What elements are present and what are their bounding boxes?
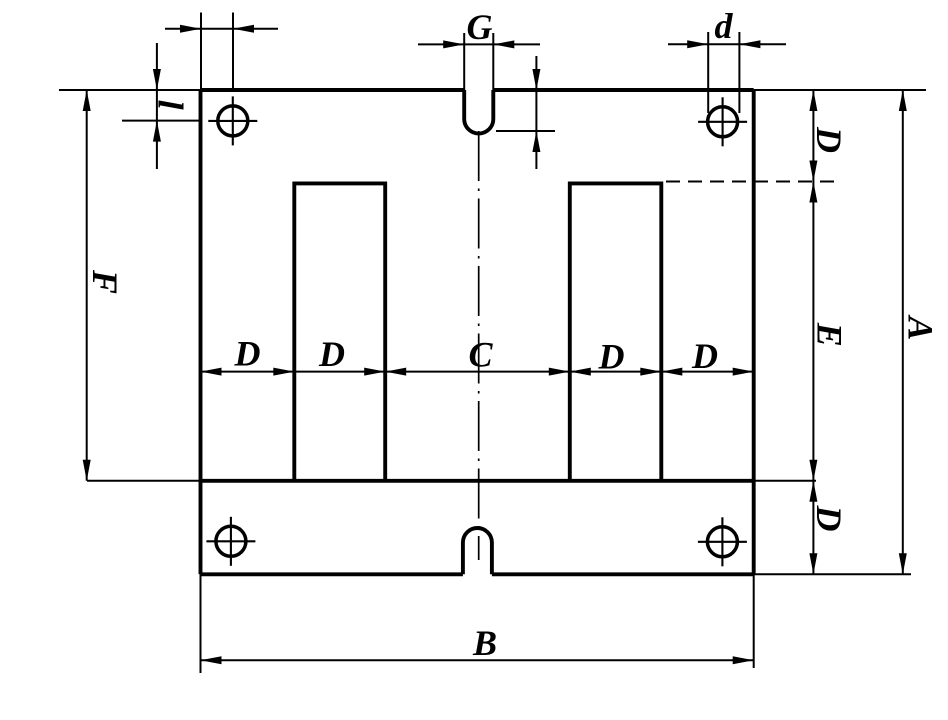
dimension G (top notch width) xyxy=(418,7,540,90)
dimension D (bottom right, I-strip depth) xyxy=(809,481,849,575)
left window slot xyxy=(294,183,385,480)
chain dimension line D D C D D (middle) xyxy=(201,334,754,377)
dimension B (overall width, bottom) xyxy=(201,574,754,673)
svg-text:D: D xyxy=(809,505,849,532)
hole top-left with center crosshair xyxy=(208,96,257,145)
plate left edge xyxy=(199,90,203,574)
top edge extension line right (for A and D dims) xyxy=(754,89,926,91)
dimension d (hole diameter, top-right) xyxy=(668,6,786,113)
bottom center notch xyxy=(463,528,492,574)
hole top-right with center crosshair xyxy=(698,97,747,146)
svg-text:E: E xyxy=(810,322,850,347)
dimension: hole offset from left edge (unlabeled, top-left) xyxy=(165,13,278,91)
vertical centerline (dash-dot) xyxy=(478,131,480,560)
svg-text:l: l xyxy=(150,100,190,110)
svg-text:D: D xyxy=(318,334,345,374)
dashed extension line from slot top to right (for D and E dims) xyxy=(666,181,838,183)
dimension D (top right, yoke depth) xyxy=(809,90,849,182)
cut line extension right (for E and D dims) xyxy=(754,480,816,482)
svg-text:C: C xyxy=(468,335,493,375)
right window slot xyxy=(570,183,662,480)
plate top edge (interrupted by notch G) xyxy=(201,88,465,92)
dimension F (left side height) xyxy=(83,90,125,481)
svg-text:D: D xyxy=(691,336,718,376)
dimension for notch depth (unlabeled, right of notch) xyxy=(496,56,555,169)
svg-text:F: F xyxy=(85,269,125,294)
dimension l (hole offset from top edge) xyxy=(122,43,201,169)
svg-text:D: D xyxy=(598,337,625,377)
svg-text:d: d xyxy=(715,6,734,46)
top edge extension line left (for F and hole dims) xyxy=(59,89,201,91)
svg-text:B: B xyxy=(472,623,497,663)
cut line extension left (for F dim) xyxy=(87,480,201,482)
svg-text:D: D xyxy=(809,126,849,153)
plate right edge xyxy=(752,90,756,574)
plate bottom edge (interrupted by bottom notch) xyxy=(201,572,463,576)
top center notch G xyxy=(464,90,493,134)
svg-text:G: G xyxy=(467,7,493,47)
hole bottom-right with center crosshair xyxy=(698,517,747,566)
hole bottom-left with center crosshair xyxy=(206,517,255,566)
svg-text:A: A xyxy=(901,314,941,340)
bottom edge extension line right (for A dim) xyxy=(754,573,911,575)
dimension A (overall height, far right) xyxy=(899,90,941,574)
dimension E (window height, right side) xyxy=(809,182,849,481)
E-I cut line across plate xyxy=(201,479,754,483)
svg-text:D: D xyxy=(234,334,261,374)
